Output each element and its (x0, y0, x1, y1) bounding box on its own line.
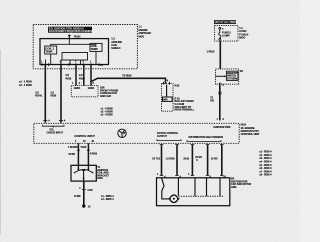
svg-text:CONTROL INPUT: CONTROL INPUT (74, 134, 95, 138)
coil temp box (90, 43, 102, 51)
svg-text:4 RD/8: 4 RD/8 (90, 153, 98, 156)
fuse F1 dashed box (215, 26, 238, 41)
svg-text:GND1: GND1 (74, 87, 81, 90)
driver stage rect (62, 53, 88, 61)
svg-text:1.0 RD/8: 1.0 RD/8 (166, 157, 176, 160)
svg-text:1 RD/8: 1 RD/8 (207, 49, 215, 53)
wire to X26 pin1 (75, 65, 77, 86)
svg-text:x3 - 0 RD/8: x3 - 0 RD/8 (101, 114, 114, 117)
svg-text:x2 - 0W/S 4: x2 - 0W/S 4 (101, 198, 114, 201)
dashed distributor line (179, 195, 225, 197)
svg-text:RD: RD (210, 99, 214, 103)
wire fuse to switch (219, 41, 221, 69)
spark wires into box (194, 178, 196, 196)
connector X26 (71, 86, 98, 97)
distributor columns wires (162, 145, 222, 176)
svg-text:TEMP: TEMP (45, 50, 52, 54)
svg-text:HOT AT ALL TIMES: HOT AT ALL TIMES (215, 21, 237, 24)
relay F1 header bar (214, 20, 236, 24)
wire TN long second (60, 65, 62, 123)
bracket EZL check input (43, 125, 65, 126)
pins into control unit top left (43, 120, 47, 122)
module N1/2 EZL dashed enclosure (33, 25, 137, 69)
svg-text:GND: GND (97, 177, 103, 180)
svg-text:75 RD/8: 75 RD/8 (122, 74, 132, 78)
svg-text:MOD: MOD (239, 36, 245, 40)
svg-text:x2 - 1 RD/8: x2 - 1 RD/8 (19, 83, 32, 87)
wire coil1 drop (50, 54, 52, 65)
svg-text:4 RD: 4 RD (87, 189, 93, 192)
pin below switch (219, 82, 222, 84)
switch arm arrow (216, 75, 225, 77)
coil windings (74, 170, 94, 174)
svg-text:T1/15: T1/15 (80, 146, 87, 149)
svg-text:GND2: GND2 (88, 87, 95, 90)
svg-text:TEMP: TEMP (91, 47, 98, 51)
svg-text:OUTPUT: OUTPUT (157, 135, 167, 138)
connector ticks on coil wires (77, 149, 80, 151)
pin row on inner box (42, 63, 99, 66)
pins top of columns (160, 145, 224, 176)
wire tach drop (68, 39, 70, 45)
inner control unit box (40, 39, 109, 65)
svg-text:CONTROL UNIT: CONTROL UNIT (241, 132, 260, 136)
engine distributor box (157, 178, 230, 206)
svg-text:GND 1H2: GND 1H2 (100, 94, 111, 98)
svg-text:DISTRIBUTOR HIGH TENSION: DISTRIBUTOR HIGH TENSION (189, 136, 224, 139)
switch S2 dashed box (216, 69, 239, 84)
resistor R16 dashed box (162, 84, 174, 112)
scan edge shadow (0, 50, 2, 235)
svg-text:RD/8: RD/8 (51, 94, 57, 98)
rotor symbol circle (118, 129, 126, 137)
wire switch to control unit (219, 84, 221, 120)
svg-text:RD/YL: RD/YL (35, 94, 43, 98)
wire jog to rotor (162, 178, 170, 199)
svg-text:15 BR: 15 BR (68, 153, 75, 156)
wire coil to ground (83, 181, 85, 205)
rotor circle (170, 195, 178, 203)
svg-text:IGNITION PWR: IGNITION PWR (213, 126, 230, 129)
wire coil link (51, 43, 96, 46)
svg-text:C4 T1/1: C4 T1/1 (152, 157, 161, 160)
svg-text:TACH: TACH (74, 35, 81, 39)
svg-text:MOD: MOD (139, 35, 145, 38)
svg-text:NEAR FIREWALL: NEAR FIREWALL (175, 109, 195, 112)
wire coil drop (95, 51, 97, 64)
svg-text:R16: R16 (175, 83, 180, 87)
wire col2 into rotor (177, 178, 179, 196)
svg-text:RD/8: RD/8 (79, 76, 85, 80)
svg-text:20 RD: 20 RD (211, 157, 218, 160)
EZL header black bar (48, 27, 92, 33)
svg-text:1 SU/WS: 1 SU/WS (68, 146, 78, 149)
svg-text:15 BR: 15 BR (74, 195, 81, 198)
switch inner block (226, 71, 238, 80)
wire coil primary right (87, 143, 89, 165)
pin TACH top (68, 35, 70, 39)
control unit N1/3 dashed box (34, 123, 239, 143)
svg-text:CHECK INPUT: CHECK INPUT (47, 132, 64, 135)
svg-text:GND: GND (231, 186, 237, 189)
ground W10 (82, 204, 85, 207)
wire coil primary left (77, 143, 79, 165)
wire 15 branch with junction (90, 65, 92, 86)
fuse element (219, 27, 221, 29)
svg-text:ADJUSTMENT REQD REPLACEMENT: ADJUSTMENT REQD REPLACEMENT (49, 30, 94, 33)
resistor inner element (166, 85, 168, 97)
svg-text:20.08: 20.08 (183, 157, 189, 160)
svg-text:x8 - RD/8 4: x8 - RD/8 4 (259, 174, 272, 177)
svg-text:ST/TERM: ST/TERM (227, 77, 237, 80)
wire to X26 pin2 (83, 65, 85, 86)
wire TD/KL long left (44, 65, 46, 123)
coil 1 temp box (45, 46, 57, 54)
svg-text:8 AMP: 8 AMP (222, 35, 230, 38)
svg-text:SHIELD: SHIELD (111, 46, 120, 50)
wire 15 feed horizontal run (91, 78, 166, 83)
svg-text:0R4: 0R4 (163, 98, 168, 101)
ignition coil T1 box (71, 165, 96, 181)
svg-text:RD/8: RD/8 (66, 76, 72, 80)
wire stage drops (69, 60, 71, 65)
